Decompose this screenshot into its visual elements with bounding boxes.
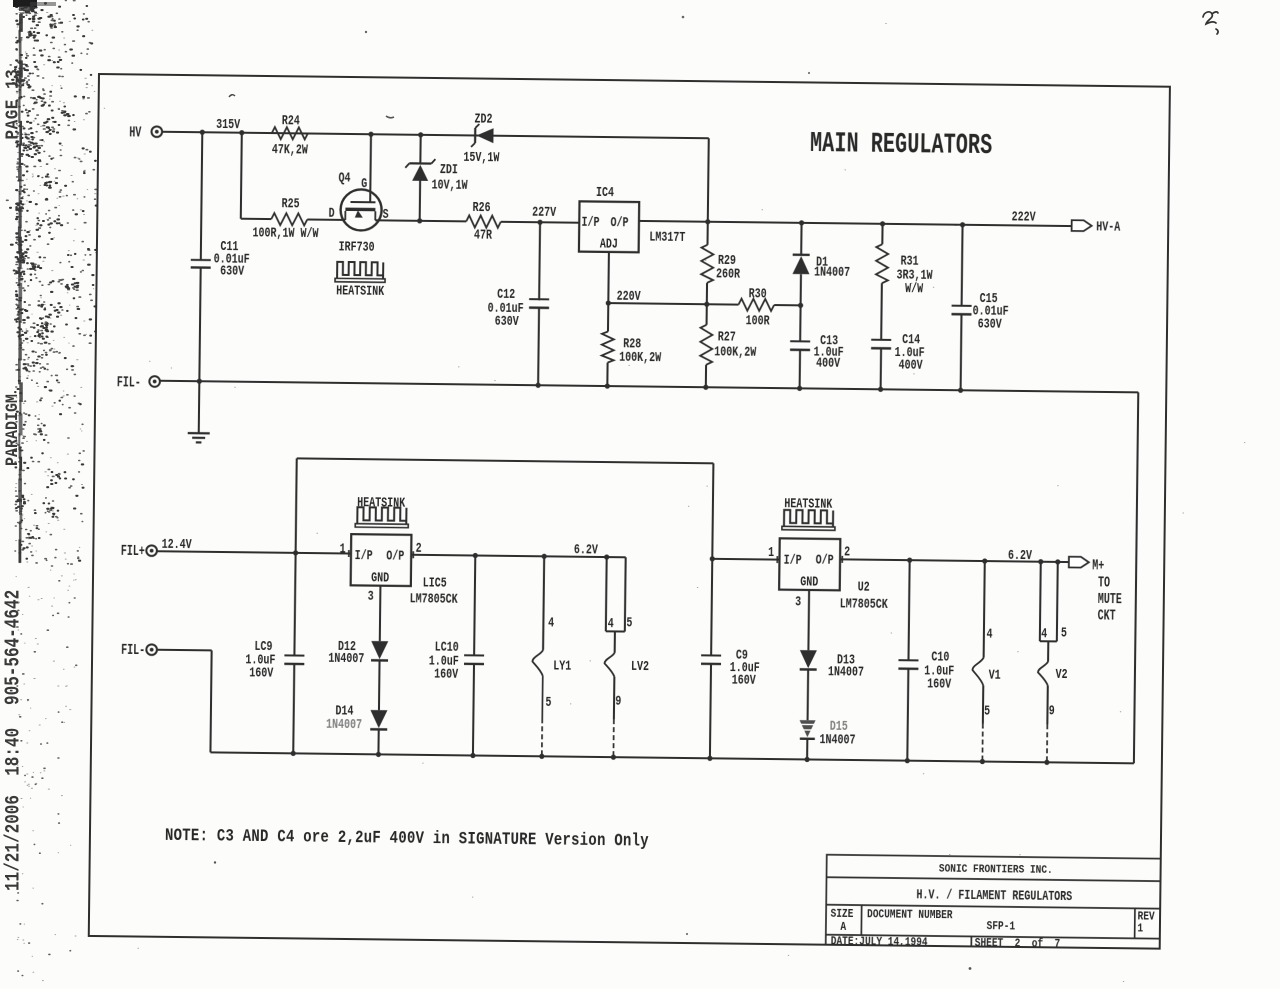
wire FIL- rail down right side: [1133, 392, 1137, 763]
diode D13 1N4007: [807, 589, 810, 649]
wire FIL- rail: [160, 380, 1138, 392]
capacitor C10: [908, 560, 909, 660]
wire R25 to Q4 drain: [307, 218, 345, 221]
svg-text:1N4007: 1N4007: [827, 663, 863, 679]
svg-text:2: 2: [844, 543, 850, 559]
svg-text:PAGE 13: PAGE 13: [4, 69, 24, 140]
op-amp IC4 LM317T regulator: [578, 201, 638, 252]
svg-text:GND: GND: [371, 569, 389, 585]
svg-text:1N4007: 1N4007: [325, 716, 361, 732]
heatsink for Q4: [337, 261, 383, 278]
resistor R31 3R3,1W W/W: [881, 223, 883, 243]
svg-text:1N4007: 1N4007: [819, 731, 855, 747]
svg-text:HV-A: HV-A: [1096, 219, 1121, 235]
svg-text:6.2V: 6.2V: [1007, 547, 1032, 563]
fax margin rotated text: [0, 0, 30, 989]
svg-text:GND: GND: [800, 574, 818, 590]
tube heater LY1: [543, 556, 544, 650]
svg-text:100K,2W: 100K,2W: [714, 343, 757, 360]
resistor R28 100K,2W: [606, 303, 608, 331]
resistor R25: [271, 213, 307, 225]
svg-text:IC4: IC4: [595, 184, 613, 200]
resistor R27 100K,2W: [705, 304, 707, 325]
svg-text:905-564-4642: 905-564-4642: [2, 590, 26, 705]
svg-text:1N4007: 1N4007: [328, 650, 364, 666]
svg-text:HEATSINK: HEATSINK: [357, 494, 406, 511]
wire IC5 output 6.2V: [411, 554, 625, 557]
svg-text:M+: M+: [1092, 557, 1104, 573]
svg-text:3: 3: [795, 593, 801, 609]
svg-text:NOTE: C3 AND C4 ore 2,2uF 400V: NOTE: C3 AND C4 ore 2,2uF 400V in SIGNAT…: [164, 825, 648, 851]
svg-text:11/21/2006 18:40: 11/21/2006 18:40: [3, 728, 25, 891]
svg-text:100K,2W: 100K,2W: [619, 349, 662, 366]
svg-text:MAIN REGULATORS: MAIN REGULATORS: [809, 129, 992, 162]
wire Q4 source to R26: [375, 220, 466, 221]
svg-text:D: D: [328, 205, 334, 221]
svg-text:R24: R24: [281, 112, 299, 128]
svg-text:100R,1W W/W: 100R,1W W/W: [252, 224, 319, 241]
resistor R29 260R: [706, 221, 708, 244]
svg-text:315V: 315V: [216, 116, 241, 132]
tube heater LV2: [604, 557, 607, 631]
svg-text:R27: R27: [717, 328, 735, 344]
capacitor LC10: [474, 555, 475, 655]
svg-text:1: 1: [339, 540, 345, 556]
svg-text:H.V. / FILAMENT REGULATORS: H.V. / FILAMENT REGULATORS: [916, 886, 1072, 904]
svg-text:O/P: O/P: [386, 547, 404, 563]
svg-text:ZD2: ZD2: [474, 110, 492, 126]
wire C11 to FIL- rail: [199, 267, 200, 381]
wire HV to C11: [200, 132, 202, 260]
svg-text:SIZE: SIZE: [830, 908, 853, 922]
wire 315V to R25: [240, 132, 241, 218]
op-amp IC5 LM7805CK regulator: [350, 534, 411, 586]
svg-text:9: 9: [615, 693, 621, 709]
svg-text:630V: 630V: [977, 316, 1002, 332]
svg-text:160V: 160V: [433, 666, 458, 682]
resistor R26 47R: [466, 215, 501, 227]
output arrow M+ to mute circuit: [1068, 556, 1088, 567]
wire Q4 gate: [369, 134, 372, 202]
capacitor C13: [790, 340, 810, 342]
pin tick IC5 pin1: [347, 550, 349, 557]
svg-text:1N4007: 1N4007: [813, 263, 849, 279]
output arrow HV-A: [1071, 220, 1091, 231]
svg-text:10V,1W: 10V,1W: [431, 176, 468, 192]
svg-text:R25: R25: [281, 195, 299, 211]
tube heater V1: [983, 561, 984, 657]
svg-text:SFP-1: SFP-1: [986, 920, 1015, 934]
wire ZD2 to corner: [493, 135, 708, 138]
svg-text:I/P: I/P: [783, 552, 801, 568]
svg-text:630V: 630V: [494, 313, 519, 329]
svg-text:1: 1: [768, 544, 774, 560]
svg-text:ZDI: ZDI: [439, 161, 457, 177]
pin tick U2 pin2: [841, 555, 843, 562]
svg-text:LV2: LV2: [630, 658, 648, 674]
zener diode ZD2 15V,1W: [473, 127, 475, 142]
svg-text:LY1: LY1: [553, 658, 571, 674]
svg-text:I/P: I/P: [581, 214, 599, 230]
svg-text:SHEET 2 of 7: SHEET 2 of 7: [974, 936, 1060, 949]
svg-text:O/P: O/P: [815, 552, 833, 568]
wire IC4 output 222V rail: [638, 220, 1071, 225]
svg-text:REV: REV: [1137, 910, 1155, 923]
svg-text:FIL+: FIL+: [120, 543, 144, 560]
svg-text:LIC5: LIC5: [422, 574, 446, 590]
capacitor C12: [538, 222, 541, 299]
svg-text:5: 5: [545, 694, 551, 710]
wire 12.4V to U2 input: [712, 557, 779, 560]
svg-text:HEATSINK: HEATSINK: [336, 283, 385, 300]
svg-text:222V: 222V: [1011, 209, 1036, 225]
wire FIL+ to IC5: [157, 551, 351, 553]
svg-text:U2: U2: [857, 579, 869, 595]
svg-text:160V: 160V: [731, 672, 756, 688]
capacitor C11: [190, 258, 210, 260]
svg-text:CKT: CKT: [1097, 607, 1116, 624]
diode D12 1N4007: [378, 585, 381, 640]
wire IC4 ADJ: [607, 251, 610, 302]
svg-text:12.4V: 12.4V: [161, 536, 192, 552]
svg-text:5: 5: [1060, 625, 1066, 641]
title block: [825, 854, 1161, 949]
svg-text:4: 4: [986, 626, 992, 642]
svg-text:DOCUMENT NUMBER: DOCUMENT NUMBER: [866, 908, 952, 922]
svg-text:400V: 400V: [816, 354, 841, 370]
svg-text:4: 4: [1041, 625, 1047, 641]
wire R24 to ZD2: [307, 133, 474, 135]
svg-text:O/P: O/P: [610, 214, 628, 230]
svg-text:V1: V1: [988, 667, 1000, 683]
svg-text:LM7805CK: LM7805CK: [409, 590, 458, 607]
terminal HV: [151, 126, 162, 137]
svg-text:HV: HV: [129, 124, 142, 140]
wire HV rail: [162, 131, 708, 137]
capacitor C15: [960, 224, 963, 305]
svg-text:PARADIGM: PARADIGM: [2, 394, 23, 466]
wire R30 to D1 branch: [774, 304, 800, 306]
terminal FIL+: [146, 545, 157, 556]
svg-text:IRF730: IRF730: [338, 238, 374, 254]
resistor R24: [271, 127, 307, 139]
capacitor C9: [711, 558, 712, 655]
zener diode ZD1 10V,1W: [419, 134, 421, 163]
node 315V: [199, 129, 204, 134]
heatsink for IC5: [357, 507, 406, 524]
svg-text:A: A: [840, 921, 846, 934]
svg-text:FIL-: FIL-: [121, 642, 145, 659]
svg-text:6.2V: 6.2V: [573, 541, 598, 557]
svg-text:I/P: I/P: [354, 547, 372, 563]
svg-text:LM7805CK: LM7805CK: [839, 596, 888, 613]
svg-text:9: 9: [1048, 702, 1054, 718]
transistor Q4 IRF730: [340, 189, 381, 230]
svg-text:LM317T: LM317T: [649, 229, 685, 245]
svg-text:47K,2W: 47K,2W: [271, 141, 308, 157]
svg-text:R30: R30: [748, 285, 766, 301]
tube heater V2: [1038, 561, 1041, 640]
node 227V: [500, 220, 578, 223]
svg-text:4: 4: [607, 615, 613, 631]
svg-text:3: 3: [367, 588, 373, 604]
svg-text:Q4: Q4: [338, 170, 350, 186]
svg-text:MUTE: MUTE: [1097, 591, 1121, 608]
svg-text:ADJ: ADJ: [599, 236, 617, 252]
svg-text:5: 5: [626, 614, 632, 630]
ground: [197, 381, 200, 433]
op-amp U2 LM7805CK regulator: [779, 538, 840, 590]
svg-text:15V,1W: 15V,1W: [463, 149, 500, 165]
wire 220V line: [608, 303, 738, 305]
svg-text:G: G: [361, 175, 367, 191]
wire down to 222V rail: [706, 138, 709, 221]
svg-text:4: 4: [548, 614, 554, 630]
svg-text:260R: 260R: [715, 265, 740, 281]
diode D1 1N4007: [800, 222, 802, 254]
svg-text:160V: 160V: [927, 675, 952, 691]
capacitor C14: [871, 338, 891, 340]
svg-text:TO: TO: [1097, 574, 1110, 590]
terminal FIL- top: [149, 376, 160, 387]
wire bottom rail: [210, 752, 1133, 763]
svg-text:V2: V2: [1055, 666, 1067, 682]
terminal FIL- lower: [146, 644, 157, 655]
svg-text:HEATSINK: HEATSINK: [784, 495, 833, 512]
resistor R30 100R: [738, 298, 774, 310]
svg-text:160V: 160V: [249, 664, 274, 680]
capacitor LC9: [294, 552, 295, 655]
heatsink for U2: [783, 509, 832, 526]
svg-text:1: 1: [1137, 922, 1143, 935]
svg-text:2: 2: [415, 540, 421, 556]
border frame: [88, 74, 1169, 949]
svg-text:220V: 220V: [616, 288, 641, 304]
svg-text:FIL-: FIL-: [116, 374, 140, 391]
handwritten page number 2: [1195, 4, 1255, 49]
svg-text:R26: R26: [472, 199, 490, 215]
pin tick U2 pin1: [776, 556, 778, 563]
svg-text:400V: 400V: [898, 357, 923, 373]
svg-text:SONIC FRONTIERS INC.: SONIC FRONTIERS INC.: [938, 862, 1052, 876]
wire lower top 12.4V feed: [295, 458, 296, 552]
diode D15 1N4007: [806, 670, 809, 720]
svg-text:47R: 47R: [473, 227, 492, 243]
svg-text:W/W: W/W: [904, 280, 923, 296]
svg-text:100R: 100R: [745, 312, 770, 328]
wire FIL- lower to bottom rail: [157, 648, 211, 651]
diode D14 1N4007: [377, 661, 380, 710]
pin tick IC5 pin2: [412, 551, 414, 558]
svg-text:5: 5: [983, 703, 989, 719]
svg-text:630V: 630V: [220, 263, 245, 279]
wire U2 output 6.2V: [840, 559, 1069, 562]
schematic frame (slightly rotated scan): [87, 73, 1170, 950]
svg-text:227V: 227V: [532, 204, 557, 220]
